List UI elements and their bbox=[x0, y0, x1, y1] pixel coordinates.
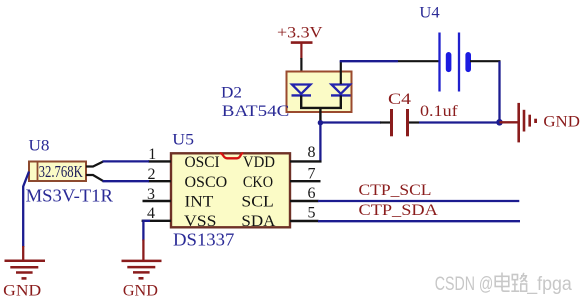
svg-text:3: 3 bbox=[147, 186, 155, 203]
pin crystal top stub bbox=[86, 161, 104, 166]
svg-text:C4: C4 bbox=[388, 91, 411, 108]
pin 7 line (CKO) bbox=[290, 180, 321, 182]
pin 2 line (OSCO) bbox=[148, 180, 171, 182]
svg-text:OSCI: OSCI bbox=[185, 154, 220, 171]
wire crystal to pin 2 bbox=[103, 180, 150, 182]
pin 1 line (OSCI) bbox=[148, 160, 171, 162]
wire ground red segment mid bbox=[142, 240, 144, 261]
svg-text:U4: U4 bbox=[419, 4, 439, 21]
svg-text:VSS: VSS bbox=[184, 213, 217, 230]
svg-text:INT: INT bbox=[185, 194, 214, 211]
ground GND left symbol bbox=[5, 261, 46, 279]
wire VSS pin 4 down bbox=[143, 221, 150, 241]
svg-text:5: 5 bbox=[308, 204, 316, 221]
svg-text:CKO: CKO bbox=[243, 174, 273, 191]
svg-text:OSCO: OSCO bbox=[185, 174, 228, 191]
svg-text:8: 8 bbox=[308, 144, 316, 161]
pin 3 line (INT) bbox=[143, 200, 172, 202]
watermark glyph dian bbox=[495, 273, 509, 292]
svg-text:GND: GND bbox=[3, 283, 41, 300]
battery U4 symbol bbox=[440, 33, 469, 92]
svg-text:7: 7 bbox=[308, 166, 316, 183]
svg-text:GND: GND bbox=[123, 282, 158, 299]
pin C4 left (black) bbox=[380, 121, 390, 123]
junction node at C4/GND bbox=[496, 119, 503, 126]
svg-text:SDA: SDA bbox=[241, 213, 276, 230]
wire junction to C4 left bbox=[320, 121, 381, 123]
wire junction to right GND (red) bbox=[500, 121, 519, 123]
svg-text:1: 1 bbox=[148, 146, 156, 163]
pin battery U4 right (black) bbox=[470, 60, 501, 62]
svg-text:SCL: SCL bbox=[241, 194, 273, 211]
power +3.3V bar bbox=[291, 41, 313, 44]
wire D2 right anode up bbox=[340, 61, 342, 84]
svg-text:_fpga: _fpga bbox=[526, 274, 572, 295]
wire D2 internal cathode bus bbox=[301, 95, 341, 108]
pin 5 line (SDA) bbox=[290, 220, 319, 222]
red arc mark on U5 top bbox=[220, 153, 243, 158]
junction node below D2 bbox=[318, 120, 323, 125]
power +3.3V stem wire bbox=[300, 43, 302, 59]
svg-text:VDD: VDD bbox=[243, 154, 275, 171]
svg-text:GND: GND bbox=[543, 114, 580, 131]
svg-text:MS3V-T1R: MS3V-T1R bbox=[26, 185, 113, 205]
svg-text:DS1337: DS1337 bbox=[173, 230, 234, 250]
svg-text:CTP_SCL: CTP_SCL bbox=[359, 182, 432, 199]
wire +3.3V to D2 anode bbox=[300, 58, 302, 84]
svg-text:0.1uf: 0.1uf bbox=[420, 103, 458, 120]
watermark glyph lu bbox=[511, 273, 527, 291]
crystal U8 divider bbox=[37, 162, 39, 181]
crystal U8 body bbox=[29, 162, 86, 182]
pin 6 line (SCL) bbox=[290, 200, 319, 202]
svg-text:4: 4 bbox=[147, 205, 155, 222]
svg-text:CTP_SDA: CTP_SDA bbox=[359, 202, 439, 219]
svg-text:6: 6 bbox=[308, 185, 316, 202]
ground GND mid symbol bbox=[122, 261, 162, 278]
ground GND right (sideways power ground) bbox=[519, 103, 536, 142]
svg-text:U8: U8 bbox=[29, 138, 50, 155]
pin 8 line (VDD) bbox=[290, 160, 322, 162]
wire D2 cathode junction down to pin 8 bbox=[319, 123, 321, 163]
diode D2 right element bbox=[331, 85, 351, 96]
wire SCL net bbox=[318, 200, 519, 202]
wire crystal to pin 1 bbox=[103, 160, 150, 162]
pin C4 right (black) bbox=[409, 121, 419, 123]
pin battery U4 left (black) bbox=[398, 60, 439, 62]
svg-text:32.768K: 32.768K bbox=[39, 162, 83, 181]
pin 4 line (VSS) bbox=[142, 220, 171, 222]
diode D2 left element bbox=[292, 85, 312, 96]
svg-text:D2: D2 bbox=[221, 85, 242, 102]
svg-text:U5: U5 bbox=[172, 132, 194, 149]
capacitor C4 bbox=[392, 109, 408, 136]
pin crystal bottom stub bbox=[86, 175, 104, 181]
wire D2 common cathode down bbox=[319, 108, 321, 123]
wire D2 to battery U4 (blue part) bbox=[340, 60, 398, 62]
watermark CSDN bbox=[435, 274, 572, 295]
wire crystal case to ground (diagonal) bbox=[23, 172, 29, 248]
wire ground red segment left bbox=[22, 246, 24, 261]
wire battery down to junction bbox=[498, 61, 500, 122]
svg-text:BAT54C: BAT54C bbox=[222, 103, 289, 120]
wire SDA net bbox=[318, 220, 520, 222]
wire C4 to junction bbox=[419, 121, 500, 123]
svg-text:CSDN @: CSDN @ bbox=[435, 274, 494, 295]
diode D2 body box bbox=[287, 72, 352, 113]
ic U5 body box bbox=[171, 153, 290, 227]
svg-text:+3.3V: +3.3V bbox=[277, 25, 323, 42]
